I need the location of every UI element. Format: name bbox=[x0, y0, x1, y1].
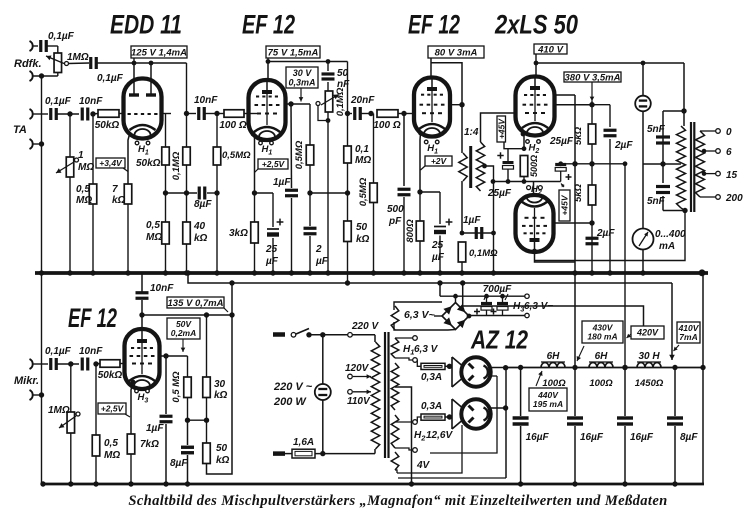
svg-text:50kΩ: 50kΩ bbox=[98, 370, 123, 381]
svg-text:0: 0 bbox=[726, 127, 732, 138]
svg-text:mA: mA bbox=[659, 241, 675, 252]
svg-text:25µF: 25µF bbox=[487, 188, 512, 199]
svg-text:0,1µF: 0,1µF bbox=[48, 31, 75, 42]
svg-text:2xLS 50: 2xLS 50 bbox=[494, 10, 578, 40]
svg-text:MΩ: MΩ bbox=[78, 162, 94, 173]
svg-text:2µF: 2µF bbox=[596, 228, 615, 239]
svg-text:100 Ω: 100 Ω bbox=[373, 120, 400, 131]
svg-text:EF 12: EF 12 bbox=[242, 10, 295, 40]
svg-text:MΩ: MΩ bbox=[104, 450, 120, 461]
svg-text:50kΩ: 50kΩ bbox=[95, 120, 120, 131]
svg-text:µF: µF bbox=[315, 256, 329, 267]
svg-text:16µF: 16µF bbox=[526, 432, 550, 443]
svg-text:420V: 420V bbox=[636, 328, 659, 338]
svg-text:16µF: 16µF bbox=[580, 432, 604, 443]
svg-text:0,5MΩ: 0,5MΩ bbox=[222, 150, 251, 161]
svg-text:50: 50 bbox=[356, 222, 368, 233]
svg-text:10nF: 10nF bbox=[79, 96, 103, 107]
svg-text:5kΩ: 5kΩ bbox=[573, 183, 584, 202]
svg-text:1MΩ: 1MΩ bbox=[67, 52, 89, 63]
svg-text:30 H: 30 H bbox=[638, 351, 660, 362]
svg-text:AZ 12: AZ 12 bbox=[470, 325, 528, 355]
svg-text:200: 200 bbox=[725, 193, 743, 204]
svg-text:3kΩ: 3kΩ bbox=[229, 228, 248, 239]
svg-text:EDD 11: EDD 11 bbox=[110, 10, 182, 40]
svg-text:MΩ: MΩ bbox=[146, 232, 162, 243]
svg-text:kΩ: kΩ bbox=[194, 233, 208, 244]
svg-text:7: 7 bbox=[112, 184, 118, 195]
svg-text:+45V: +45V bbox=[560, 194, 570, 215]
svg-text:0,1MΩ: 0,1MΩ bbox=[171, 151, 182, 180]
svg-text:40: 40 bbox=[193, 221, 206, 232]
svg-text:100 Ω: 100 Ω bbox=[219, 120, 246, 131]
svg-text:800Ω: 800Ω bbox=[405, 219, 416, 243]
svg-text:1µF: 1µF bbox=[463, 215, 481, 226]
svg-text:100Ω: 100Ω bbox=[542, 378, 566, 389]
svg-text:1MΩ: 1MΩ bbox=[48, 405, 70, 416]
svg-text:µF: µF bbox=[431, 252, 445, 263]
svg-text:0,5 MΩ: 0,5 MΩ bbox=[171, 371, 182, 403]
svg-text:Mikr.: Mikr. bbox=[14, 375, 39, 387]
svg-text:20nF: 20nF bbox=[350, 95, 375, 106]
svg-text:0,1MΩ: 0,1MΩ bbox=[335, 87, 346, 116]
svg-text:6: 6 bbox=[726, 147, 732, 158]
svg-text:410 V: 410 V bbox=[537, 44, 563, 55]
svg-text:0,5MΩ: 0,5MΩ bbox=[294, 140, 305, 169]
svg-text:0,1µF: 0,1µF bbox=[45, 96, 72, 107]
svg-text:120V: 120V bbox=[345, 363, 370, 374]
svg-text:1: 1 bbox=[78, 150, 84, 161]
svg-text:195 mA: 195 mA bbox=[533, 399, 563, 409]
svg-text:0,3mA: 0,3mA bbox=[288, 77, 315, 87]
svg-text:220 V: 220 V bbox=[351, 321, 379, 332]
svg-text:pF: pF bbox=[388, 216, 402, 227]
svg-text:2: 2 bbox=[315, 244, 322, 255]
svg-text:10nF: 10nF bbox=[194, 95, 218, 106]
svg-text:1µF: 1µF bbox=[146, 423, 164, 434]
svg-text:10nF: 10nF bbox=[150, 283, 174, 294]
svg-text:0,1: 0,1 bbox=[355, 144, 369, 155]
svg-text:100Ω: 100Ω bbox=[589, 378, 613, 389]
svg-text:µF: µF bbox=[265, 256, 279, 267]
svg-text:16µF: 16µF bbox=[630, 432, 654, 443]
svg-text:6,3 V−: 6,3 V− bbox=[524, 301, 553, 312]
svg-text:110V: 110V bbox=[347, 396, 371, 407]
svg-text:+2V: +2V bbox=[431, 156, 448, 166]
svg-text:5nF: 5nF bbox=[647, 196, 666, 207]
svg-text:0,1MΩ: 0,1MΩ bbox=[469, 248, 498, 259]
svg-text:kΩ: kΩ bbox=[112, 195, 126, 206]
svg-text:50: 50 bbox=[216, 443, 228, 454]
svg-text:0,1µF: 0,1µF bbox=[97, 73, 124, 84]
svg-text:25: 25 bbox=[431, 240, 444, 251]
svg-text:TA: TA bbox=[13, 124, 27, 136]
svg-text:0,5MΩ: 0,5MΩ bbox=[358, 177, 369, 206]
svg-text:0,3A: 0,3A bbox=[421, 401, 442, 412]
svg-text:700µF: 700µF bbox=[483, 284, 512, 295]
svg-text:+2,5V: +2,5V bbox=[262, 159, 286, 169]
svg-text:80 V 3mA: 80 V 3mA bbox=[435, 47, 478, 58]
svg-text:6,3 V~: 6,3 V~ bbox=[404, 309, 435, 321]
svg-text:EF 12: EF 12 bbox=[68, 303, 117, 333]
svg-text:125 V 1,4mA: 125 V 1,4mA bbox=[131, 47, 187, 58]
svg-text:25: 25 bbox=[265, 244, 278, 255]
svg-text:1,6A: 1,6A bbox=[293, 437, 314, 448]
svg-text:8µF: 8µF bbox=[170, 458, 188, 469]
svg-text:500Ω: 500Ω bbox=[529, 155, 539, 177]
svg-text:0,5: 0,5 bbox=[146, 220, 160, 231]
svg-text:MΩ: MΩ bbox=[76, 195, 92, 206]
svg-text:1450Ω: 1450Ω bbox=[635, 378, 664, 389]
svg-text:135 V 0,7mA: 135 V 0,7mA bbox=[168, 298, 224, 309]
svg-text:Schaltbild des Mischpultvers: Schaltbild des Mischpultverstärkers „Mag… bbox=[128, 493, 667, 509]
svg-text:5kΩ: 5kΩ bbox=[573, 126, 584, 145]
svg-text:0,1µF: 0,1µF bbox=[45, 346, 72, 357]
svg-text:Rdfk.: Rdfk. bbox=[14, 58, 42, 70]
svg-text:2µF: 2µF bbox=[614, 140, 633, 151]
svg-text:7mA: 7mA bbox=[679, 332, 697, 342]
svg-text:75 V 1,5mA: 75 V 1,5mA bbox=[268, 47, 319, 58]
svg-text:15: 15 bbox=[726, 170, 738, 181]
svg-text:0...400: 0...400 bbox=[655, 229, 686, 240]
svg-text:0,5: 0,5 bbox=[76, 184, 90, 195]
svg-text:8µF: 8µF bbox=[680, 432, 698, 443]
svg-text:kΩ: kΩ bbox=[216, 455, 230, 466]
svg-text:EF 12: EF 12 bbox=[408, 10, 460, 40]
svg-text:30: 30 bbox=[214, 379, 226, 390]
svg-text:7kΩ: 7kΩ bbox=[140, 439, 159, 450]
svg-text:220 V ~: 220 V ~ bbox=[273, 381, 313, 393]
svg-text:1:4: 1:4 bbox=[464, 127, 479, 138]
svg-text:4V: 4V bbox=[416, 460, 431, 471]
svg-text:kΩ: kΩ bbox=[356, 234, 370, 245]
svg-text:1µF: 1µF bbox=[273, 177, 291, 188]
svg-text:kΩ: kΩ bbox=[214, 390, 228, 401]
svg-text:5nF: 5nF bbox=[647, 124, 666, 135]
svg-text:10nF: 10nF bbox=[79, 346, 103, 357]
svg-text:+3,4V: +3,4V bbox=[99, 158, 123, 168]
svg-text:50kΩ: 50kΩ bbox=[136, 158, 161, 169]
svg-text:500: 500 bbox=[387, 204, 404, 215]
svg-text:380 V 3,5mA: 380 V 3,5mA bbox=[565, 72, 621, 83]
svg-text:0,3A: 0,3A bbox=[421, 372, 442, 383]
svg-text:+45V: +45V bbox=[496, 118, 506, 139]
svg-text:0,2mA: 0,2mA bbox=[171, 328, 197, 338]
svg-text:8µF: 8µF bbox=[194, 199, 212, 210]
svg-text:0,5: 0,5 bbox=[104, 438, 118, 449]
svg-text:12,6V: 12,6V bbox=[426, 430, 453, 441]
svg-text:+2,5V: +2,5V bbox=[101, 404, 125, 414]
svg-text:25µF: 25µF bbox=[549, 136, 574, 147]
svg-text:MΩ: MΩ bbox=[355, 155, 371, 166]
svg-text:200 W: 200 W bbox=[273, 396, 307, 408]
svg-text:6,3 V: 6,3 V bbox=[414, 344, 439, 355]
svg-text:30 V: 30 V bbox=[293, 68, 313, 78]
svg-text:6H: 6H bbox=[595, 351, 609, 362]
svg-text:180 mA: 180 mA bbox=[587, 332, 617, 342]
svg-text:6H: 6H bbox=[547, 351, 561, 362]
